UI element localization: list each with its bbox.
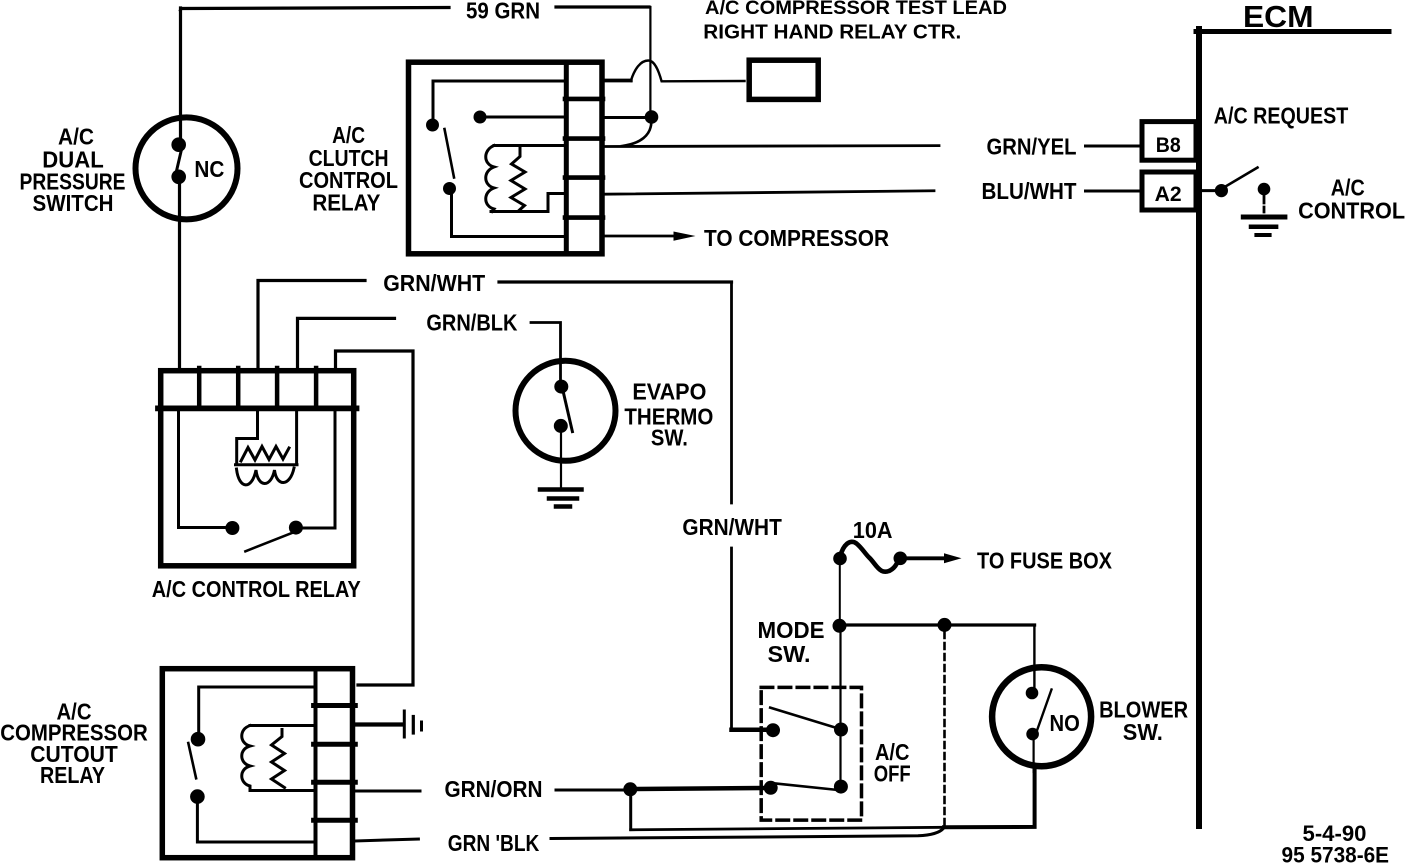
cutout relay connector divider 3 bbox=[314, 780, 356, 785]
svg-text:GRN/ORN: GRN/ORN bbox=[445, 776, 543, 802]
svg-text:NO: NO bbox=[1050, 710, 1080, 736]
wire evapo to ground bbox=[560, 433, 562, 489]
ground under evapo bbox=[540, 490, 582, 507]
svg-text:MODE: MODE bbox=[758, 617, 825, 643]
wire GRN/WHT into upper left dot bbox=[732, 728, 767, 733]
A/C compressor cutout relay box bbox=[162, 669, 352, 858]
svg-text:GRN/YEL: GRN/YEL bbox=[987, 134, 1077, 160]
svg-text:RIGHT HAND RELAY CTR.: RIGHT HAND RELAY CTR. bbox=[703, 22, 961, 44]
svg-text:A2: A2 bbox=[1155, 183, 1182, 206]
svg-text:OFF: OFF bbox=[874, 760, 911, 786]
cutout relay switch bottom dot bbox=[190, 789, 205, 804]
blower upper contact dot bbox=[1026, 687, 1039, 700]
pressure switch lower contact dot bbox=[171, 170, 186, 185]
svg-text:CONTROL: CONTROL bbox=[1298, 197, 1405, 223]
clutch relay connector divider 1 bbox=[565, 97, 603, 102]
svg-text:95 5738-6E: 95 5738-6E bbox=[1282, 843, 1390, 866]
A/C OFF dashed box bbox=[761, 687, 861, 820]
wire GRN/ORN to junction bbox=[556, 789, 624, 792]
mode switch lower right dot bbox=[834, 780, 848, 794]
clutch relay connector divider 4 bbox=[565, 215, 603, 220]
arrow TO FUSE BOX bbox=[907, 556, 946, 560]
control relay connector row bottom bar bbox=[158, 405, 357, 411]
wire GRN/ORN from cutout pin4 bbox=[355, 790, 420, 793]
clutch relay switch bottom dot bbox=[443, 182, 456, 195]
wire GRN/ORN branch down bbox=[629, 795, 632, 830]
svg-text:A/C COMPRESSOR TEST LEAD: A/C COMPRESSOR TEST LEAD bbox=[705, 0, 1007, 19]
A/C clutch control relay box bbox=[409, 62, 603, 254]
clutch relay pin2 internal dot bbox=[474, 111, 487, 124]
fuse right dot bbox=[894, 552, 908, 566]
A/C control relay box bbox=[161, 371, 354, 566]
control relay coil bbox=[236, 411, 298, 485]
clutch relay pin1 internal wire bbox=[433, 81, 564, 118]
clutch relay pin5 internal wire bbox=[452, 194, 565, 237]
svg-text:RELAY: RELAY bbox=[40, 762, 105, 788]
clutch relay switch blade bbox=[445, 129, 455, 178]
wire fuse to mode junction bbox=[839, 565, 841, 620]
wire mode junction down to A/C OFF switch bbox=[839, 632, 841, 787]
pressure switch upper contact dot bbox=[171, 137, 186, 152]
svg-text:GRN 'BLK: GRN 'BLK bbox=[448, 830, 540, 856]
ECM horizontal line bbox=[1196, 29, 1389, 34]
svg-text:ECM: ECM bbox=[1243, 0, 1314, 34]
junction dot 2 bbox=[938, 618, 952, 632]
wire GRN/BLK down to evapo (already), evapo thermo switch circle bbox=[516, 361, 616, 461]
A/C control switch at A2 bbox=[1202, 189, 1216, 192]
clutch relay connector divider 3 bbox=[565, 175, 603, 180]
wire GRN/WHT long vertical bbox=[732, 282, 767, 730]
control relay switch right wire bbox=[303, 411, 335, 528]
mode switch lower blade bbox=[774, 783, 838, 790]
evapo switch blade bbox=[564, 393, 573, 432]
control relay switch right dot bbox=[289, 521, 303, 535]
svg-text:B8: B8 bbox=[1156, 134, 1181, 157]
sideways ground at cutout pin2 bbox=[355, 722, 401, 726]
fuse element bbox=[840, 542, 899, 572]
svg-text:A/C REQUEST: A/C REQUEST bbox=[1214, 103, 1349, 129]
cutout relay connector divider 4 bbox=[314, 818, 356, 823]
control relay connector divider 2 bbox=[236, 368, 241, 406]
connector B8 bbox=[1142, 122, 1196, 161]
cutout relay switch blade bbox=[188, 743, 196, 778]
svg-text:A/C CONTROL RELAY: A/C CONTROL RELAY bbox=[152, 576, 361, 602]
svg-text:GRN/WHT: GRN/WHT bbox=[682, 514, 781, 540]
wire BLU/WHT to A2 bbox=[1086, 190, 1140, 193]
control relay connector divider 1 bbox=[197, 368, 202, 406]
ECM vertical line bbox=[1196, 29, 1202, 826]
mode switch upper left dot bbox=[766, 723, 780, 737]
clutch relay connector divider 2 bbox=[565, 136, 603, 141]
cutout relay connector divider 1 bbox=[314, 703, 356, 708]
connector A2 bbox=[1142, 172, 1196, 210]
junction dot 59 GRN / pin2 bbox=[645, 110, 659, 124]
fuse left dot bbox=[833, 552, 847, 566]
cutout relay pin5 internal wire bbox=[197, 804, 313, 842]
clutch relay coil bbox=[486, 146, 564, 212]
control relay switch left wire bbox=[179, 411, 226, 528]
blower switch blade bbox=[1037, 690, 1052, 731]
cutout relay coil bbox=[242, 726, 314, 791]
wire GRN/BLK from control relay pin4 bbox=[298, 318, 395, 368]
wire GRN/ORN junction to A/C OFF lower left dot bbox=[637, 788, 764, 789]
svg-text:NC: NC bbox=[194, 156, 224, 182]
wire bottom run to blower bbox=[631, 827, 944, 830]
ground at A/C control bbox=[1243, 217, 1285, 235]
A/C dual pressure switch circle bbox=[136, 117, 238, 219]
wire clutch pin4 BLU/WHT row bbox=[604, 191, 934, 194]
evapo lower contact dot bbox=[554, 419, 568, 433]
control relay switch left dot bbox=[225, 521, 239, 535]
A/C compressor test lead box bbox=[749, 60, 818, 99]
wire GRN/YEL row bbox=[604, 144, 939, 148]
crossover hump wire to test lead bbox=[604, 79, 631, 83]
svg-text:SW.: SW. bbox=[768, 641, 811, 667]
svg-text:TO FUSE BOX: TO FUSE BOX bbox=[977, 548, 1113, 574]
wire 59 GRN vertical drop bbox=[649, 7, 651, 111]
wire control relay pin5 over to cutout relay pin1 bbox=[336, 351, 414, 685]
svg-text:59 GRN: 59 GRN bbox=[466, 0, 540, 24]
dashed wire below junction 2 bbox=[943, 632, 946, 826]
wire GRN/BLK to mode sw dashed pole bbox=[551, 828, 944, 839]
wire GRN/YEL to B8 bbox=[1086, 145, 1140, 148]
blower switch circle bbox=[992, 667, 1091, 766]
svg-text:SW.: SW. bbox=[1123, 719, 1163, 745]
wire GRN/WHT to vertical bbox=[499, 280, 732, 283]
wire GRN/BLK to evapo switch bbox=[531, 323, 561, 381]
clutch relay pin2 internal wire bbox=[484, 116, 564, 119]
mode switch upper right dot bbox=[834, 723, 848, 737]
control relay connector divider 3 bbox=[275, 368, 280, 406]
cutout relay connector left edge bbox=[314, 668, 318, 858]
mode switch upper blade bbox=[770, 708, 840, 730]
wire GRN/WHT from control relay pin3 bbox=[258, 281, 365, 369]
svg-text:SW.: SW. bbox=[651, 425, 688, 451]
wire 59 GRN dot curve down to GRN/YEL row bbox=[622, 123, 651, 146]
arrow TO COMPRESSOR bbox=[604, 235, 676, 238]
pressure switch blade bbox=[177, 152, 182, 172]
wire GRN/BLK from cutout pin5 bbox=[355, 839, 418, 841]
cutout relay pin1 internal wire bbox=[199, 687, 314, 732]
wire mode junction to blower bbox=[846, 623, 1035, 626]
svg-text:EVAPO: EVAPO bbox=[632, 378, 706, 404]
evapo upper contact dot bbox=[554, 380, 568, 394]
cutout relay switch top dot bbox=[191, 732, 206, 747]
svg-text:SWITCH: SWITCH bbox=[33, 190, 114, 216]
svg-text:TO COMPRESSOR: TO COMPRESSOR bbox=[704, 225, 889, 251]
svg-text:BLU/WHT: BLU/WHT bbox=[982, 178, 1077, 204]
blower lower contact dot bbox=[1026, 728, 1039, 741]
clutch relay connector column left edge bbox=[564, 62, 569, 254]
ground stub at A/C control bbox=[1263, 196, 1266, 212]
junction dot mode sw bbox=[833, 619, 847, 633]
junction dot GRN/ORN bbox=[623, 782, 637, 796]
wire clutch pin2 to GRN/YEL row bbox=[604, 116, 646, 119]
wire 59 GRN horizontal bbox=[181, 7, 650, 10]
control relay connector divider 4 bbox=[314, 368, 319, 406]
svg-text:10A: 10A bbox=[853, 517, 893, 543]
svg-text:GRN/BLK: GRN/BLK bbox=[426, 310, 517, 336]
wire pressure switch to A/C control relay pin1 bbox=[178, 183, 181, 368]
wire from 59 GRN down to pressure switch bbox=[179, 8, 182, 141]
control relay switch blade bbox=[245, 533, 293, 552]
cutout relay connector divider 2 bbox=[314, 742, 356, 747]
mode switch lower left dot bbox=[764, 781, 778, 795]
svg-text:GRN/WHT: GRN/WHT bbox=[383, 270, 485, 296]
clutch relay switch top dot bbox=[426, 119, 439, 132]
svg-text:RELAY: RELAY bbox=[312, 189, 380, 215]
